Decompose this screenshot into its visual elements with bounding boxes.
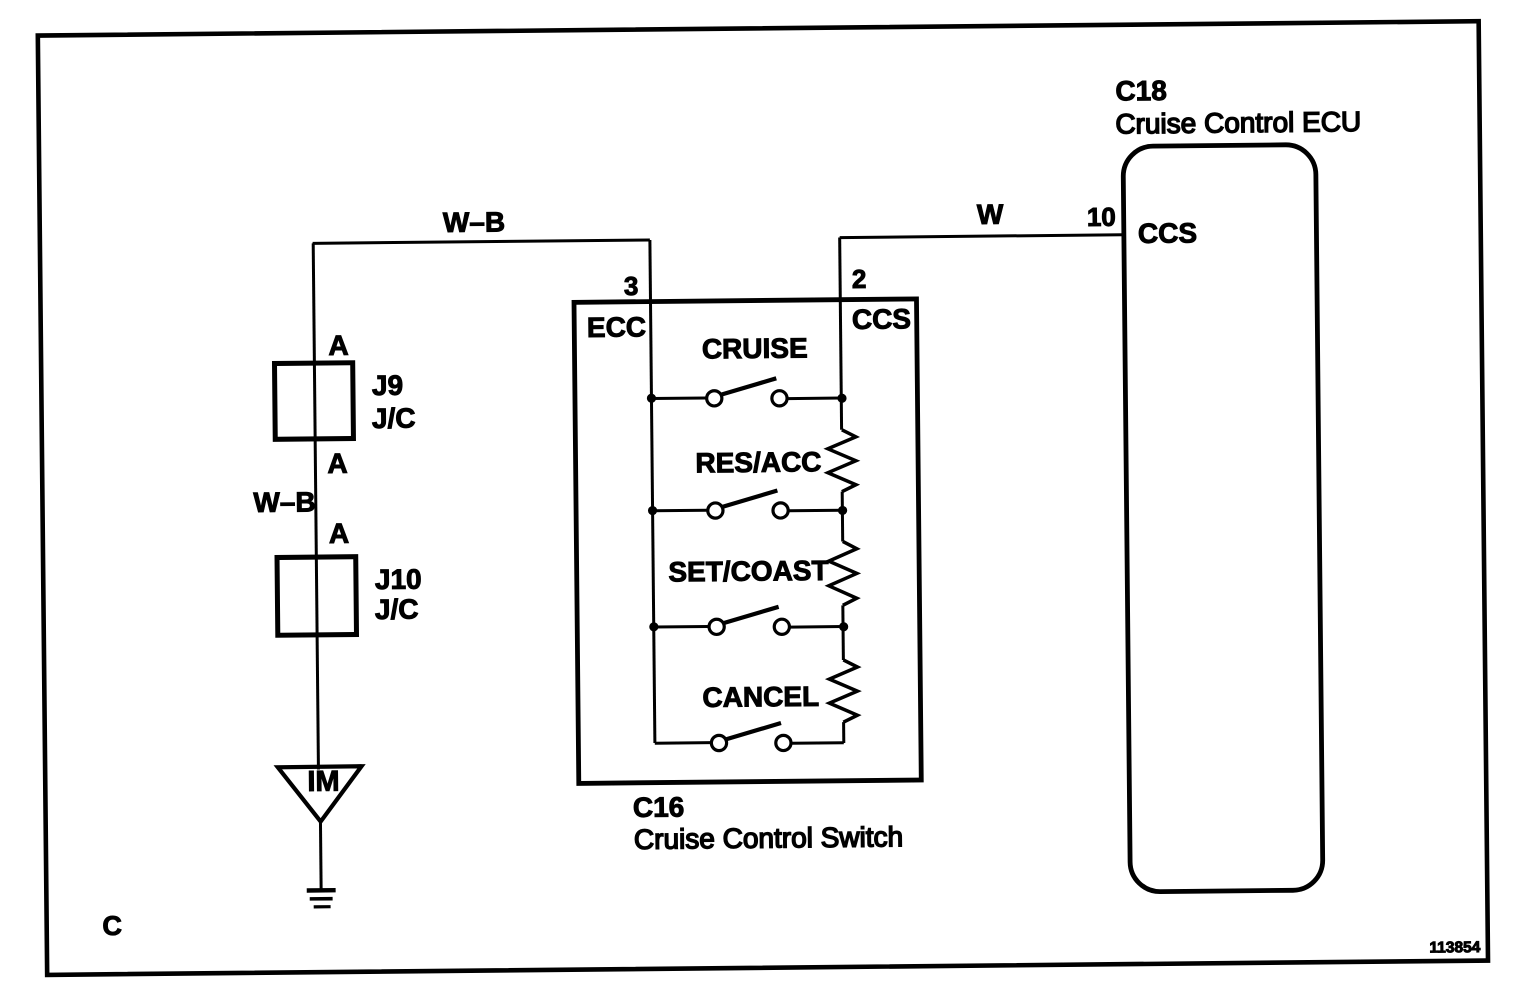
- connector C18 Cruise Control ECU box: [1123, 145, 1323, 892]
- resistor R1 (RES/ACC): [827, 430, 856, 492]
- switch CRUISE blade: [721, 378, 777, 394]
- svg-text:CRUISE: CRUISE: [702, 332, 808, 364]
- svg-text:W–B: W–B: [443, 206, 506, 238]
- svg-text:J10: J10: [375, 564, 422, 595]
- svg-text:J/C: J/C: [375, 594, 419, 625]
- svg-text:3: 3: [624, 271, 639, 301]
- junction connector J10: [277, 557, 356, 636]
- switch SET/COAST contacts: [654, 618, 844, 636]
- svg-text:A: A: [328, 330, 349, 361]
- svg-text:W: W: [977, 199, 1004, 230]
- switch CANCEL blade: [725, 723, 781, 740]
- connector C16 box: [574, 299, 921, 783]
- junction connector J9: [274, 363, 353, 440]
- switch RES/ACC blade: [722, 491, 778, 507]
- svg-text:SET/COAST: SET/COAST: [668, 555, 829, 588]
- svg-text:113854: 113854: [1429, 939, 1480, 957]
- wire R3 to CANCEL row: [842, 722, 845, 743]
- svg-text:IM: IM: [307, 766, 340, 798]
- resistor R2 (SET/COAST): [828, 541, 857, 605]
- svg-text:C18: C18: [1115, 75, 1167, 107]
- node row 1 left junction: [647, 394, 656, 403]
- svg-text:C16: C16: [633, 791, 685, 823]
- svg-text:A: A: [327, 448, 348, 479]
- switch SET/COAST blade: [723, 607, 779, 623]
- resistor R3 (CANCEL): [829, 660, 858, 722]
- switch CANCEL contacts: [655, 734, 844, 752]
- wire R1 to row 2: [841, 492, 844, 542]
- wire W-B horizontal (J9 to C16 pin 3): [313, 240, 650, 243]
- svg-text:ECC: ECC: [587, 311, 646, 343]
- node row 1 right junction: [837, 394, 846, 403]
- svg-text:RES/ACC: RES/ACC: [695, 446, 821, 478]
- wire W (C16 pin 2 to ECU pin 10): [840, 235, 1123, 238]
- svg-text:Cruise Control ECU: Cruise Control ECU: [1115, 106, 1361, 139]
- wire pin 3 bus: [650, 240, 655, 743]
- svg-text:2: 2: [852, 264, 867, 294]
- ground triangle IM: [278, 766, 362, 822]
- wire R2 to row 3: [841, 605, 845, 660]
- svg-text:10: 10: [1087, 202, 1116, 232]
- node row 2 left junction: [648, 506, 657, 515]
- svg-text:J/C: J/C: [372, 403, 416, 434]
- node row 3 right junction: [839, 622, 848, 631]
- svg-text:Cruise Control Switch: Cruise Control Switch: [634, 821, 903, 855]
- svg-text:CCS: CCS: [852, 303, 911, 335]
- svg-text:C: C: [102, 911, 122, 941]
- switch CRUISE contacts: [651, 389, 842, 407]
- wire pin 2 lead: [840, 237, 842, 429]
- svg-text:CANCEL: CANCEL: [702, 681, 819, 713]
- node row 2 right junction: [838, 506, 847, 515]
- node row 3 left junction: [649, 622, 658, 631]
- switch RES/ACC contacts: [653, 502, 843, 520]
- svg-text:CCS: CCS: [1138, 217, 1197, 249]
- svg-text:A: A: [329, 518, 350, 549]
- wire vertical J9/J10 branch: [313, 243, 318, 769]
- ground symbol: [307, 890, 336, 907]
- svg-text:J9: J9: [372, 370, 403, 401]
- svg-text:W–B: W–B: [253, 486, 316, 518]
- wire triangle apex to ground: [319, 822, 323, 890]
